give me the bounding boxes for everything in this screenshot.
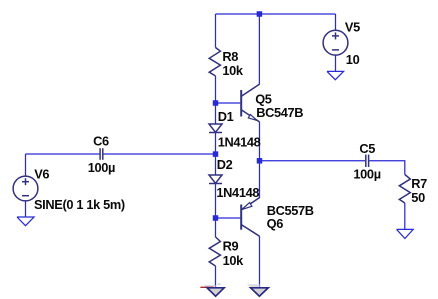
- svg-text:C6: C6: [93, 133, 109, 148]
- wire Q5 collector: [258, 14, 260, 85]
- node Q5 base junction: [213, 100, 219, 106]
- wire Q6 base: [216, 217, 241, 219]
- svg-text:R8: R8: [222, 49, 238, 64]
- ground under V6: [17, 217, 34, 226]
- svg-text:V6: V6: [34, 167, 49, 182]
- svg-text:D1: D1: [218, 109, 234, 124]
- wire V6 top lead: [25, 154, 27, 176]
- wire Q6 collector down: [259, 236, 261, 288]
- node output junction: [257, 158, 263, 164]
- resistor R8: [209, 48, 220, 76]
- wire red artifact: [200, 286, 213, 288]
- wire top rail: [216, 13, 336, 15]
- node input junction: [213, 151, 219, 157]
- svg-text:50: 50: [411, 190, 425, 205]
- ground under R7: [397, 229, 414, 238]
- resistor R7: [399, 175, 410, 204]
- svg-text:R7: R7: [411, 176, 427, 191]
- wire Q5 base: [216, 102, 241, 104]
- diode D2: [209, 175, 222, 184]
- svg-text:100µ: 100µ: [353, 166, 380, 181]
- ground under Q6 ghost: [247, 284, 260, 287]
- wire D2 to Q6 base junction: [215, 184, 217, 238]
- svg-text:1N4148: 1N4148: [216, 185, 259, 200]
- svg-text:100µ: 100µ: [88, 160, 115, 175]
- svg-text:V5: V5: [345, 20, 360, 35]
- transistor Q6: [241, 197, 260, 236]
- node top junction: [257, 11, 263, 17]
- svg-text:10: 10: [346, 52, 360, 67]
- node Q6 base junction: [213, 215, 219, 221]
- wire C5 to R7: [369, 161, 405, 175]
- wire input from V6: [26, 153, 100, 155]
- ground under Q6: [251, 288, 269, 296]
- wire V5 top lead: [335, 14, 337, 30]
- wire Q5 emitter down: [259, 122, 261, 198]
- svg-text:BC547B: BC547B: [256, 105, 303, 120]
- wire R8 to D1: [215, 76, 217, 124]
- diode D1: [209, 124, 222, 133]
- svg-text:10k: 10k: [223, 253, 245, 268]
- voltage source V6: [13, 176, 38, 201]
- wire V5 bottom lead: [335, 55, 337, 71]
- svg-text:SINE(0 1 1k 5m): SINE(0 1 1k 5m): [34, 197, 125, 212]
- capacitor C6: [100, 148, 103, 160]
- wire V6 bottom lead: [25, 201, 27, 217]
- wire D1 to input junction: [215, 133, 217, 176]
- ground under R9: [207, 288, 224, 296]
- transistor Q5: [241, 84, 259, 122]
- wire R8 top lead: [215, 14, 217, 48]
- resistor R9: [209, 237, 220, 266]
- svg-text:D2: D2: [217, 157, 233, 172]
- svg-text:Q6: Q6: [267, 216, 284, 231]
- svg-text:10k: 10k: [222, 63, 244, 78]
- svg-text:C5: C5: [359, 141, 375, 156]
- wire output to C5: [260, 160, 366, 162]
- ground under R9 ghost: [204, 285, 216, 291]
- svg-text:1N4148: 1N4148: [218, 135, 261, 150]
- voltage source V5: [323, 30, 348, 55]
- wire gray artifact: [218, 283, 221, 285]
- ground under V5: [327, 71, 344, 79]
- capacitor C5: [366, 155, 369, 167]
- svg-text:R9: R9: [223, 238, 239, 253]
- wire R9 bottom lead: [215, 266, 217, 288]
- wire C6 to input junction: [103, 153, 215, 155]
- wire R7 bottom lead: [404, 203, 406, 229]
